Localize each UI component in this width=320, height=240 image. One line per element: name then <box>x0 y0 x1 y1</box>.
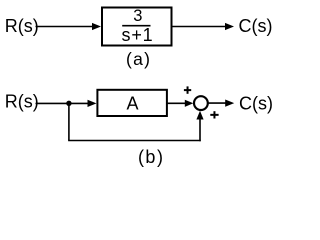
svg-text:C(s): C(s) <box>239 93 273 113</box>
wire input line (b) <box>36 102 90 104</box>
arrowhead to C(s) (a) <box>225 23 234 30</box>
plus sign top input <box>184 89 191 91</box>
svg-text:C(s): C(s) <box>239 16 273 36</box>
block G(s)=3/(s+1) <box>102 8 172 46</box>
svg-text:3: 3 <box>133 7 142 25</box>
wire block A to summer <box>167 102 186 104</box>
svg-text:R(s): R(s) <box>5 16 39 36</box>
svg-text:s+1: s+1 <box>122 25 154 45</box>
svg-text:R(s): R(s) <box>5 92 39 112</box>
svg-text:A: A <box>126 94 138 114</box>
plus sign bottom input <box>210 114 218 116</box>
summing junction circle <box>194 96 208 110</box>
svg-text:(b): (b) <box>138 147 165 167</box>
wire feedforward down segment <box>68 103 70 140</box>
wire feedforward up segment <box>199 119 201 142</box>
arrowhead into block (a) <box>92 23 101 30</box>
block A <box>97 90 166 116</box>
svg-text:(a): (a) <box>126 49 151 69</box>
fraction bar <box>122 25 150 27</box>
wire summer to C(s) <box>208 102 227 104</box>
node junction dot <box>66 101 71 106</box>
wire feedforward bottom segment <box>68 140 201 142</box>
wire output line (a) <box>173 26 227 28</box>
arrowhead into summer bottom <box>196 111 203 120</box>
arrowhead into summer <box>185 100 194 107</box>
wire input line (a) <box>36 26 94 28</box>
arrowhead to C(s) (b) <box>225 100 234 107</box>
arrowhead into block A <box>88 100 97 107</box>
